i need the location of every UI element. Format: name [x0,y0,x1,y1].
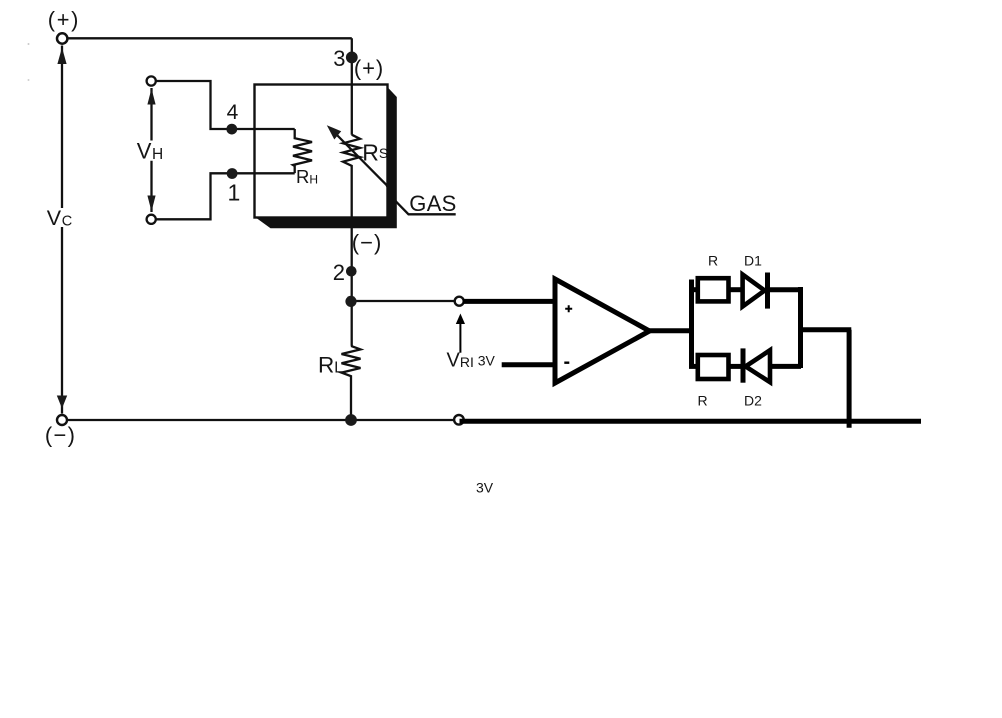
diode D2 cathode bar [741,348,746,382]
svg-text:R: R [708,253,718,269]
wire D1 to right bar [768,287,802,292]
wire R to D2 [729,364,742,369]
wire node2 to VRl terminal [351,300,455,302]
wire bottom rail thick [460,419,922,424]
svg-text:R: R [698,393,708,409]
node 2 dot [346,266,357,277]
resistor R top box [698,278,729,301]
node 4 dot [226,124,237,135]
VRl arrowhead [456,314,465,325]
gas arrow line through RS [332,130,456,214]
svg-text:(+): (+) [354,55,384,80]
svg-text:3: 3 [333,46,345,71]
svg-text:GAS: GAS [409,191,456,216]
svg-text:(−): (−) [352,230,383,255]
wire op-amp minus input thick [502,362,557,367]
gas arrowhead [327,125,341,139]
feedback right bar [798,287,803,368]
op-amp U1 triangle [555,279,650,383]
svg-text:(+): (+) [48,7,80,32]
VH measure line [150,88,152,212]
svg-text:(−): (−) [45,423,76,448]
resistor R bottom box [698,355,729,379]
diode D1 triangle [743,275,765,307]
terminal bottom mid [454,415,464,425]
VH arrowhead up [147,89,155,105]
wire R to D1 [729,287,745,292]
wire top rail [67,37,352,39]
wire D2 to right bar [770,364,801,369]
sensor box outline [255,85,388,218]
Vc arrowhead down [57,396,67,409]
svg-text:D1: D1 [744,253,762,269]
resistor RS zigzag [343,135,360,346]
op-amp plus sign [565,305,572,312]
VH arrowhead down [147,196,155,212]
resistor RH zigzag [293,129,312,173]
junction dot bottom rail [345,414,357,426]
diode D2 triangle [746,350,771,382]
sensor box shadow [256,87,397,229]
wire VH bottom terminal to node 1 [156,173,295,219]
svg-text:D2: D2 [744,393,762,409]
svg-text:2: 2 [333,260,345,285]
wire bottom rail thin [67,419,455,421]
wire output tap vertical [847,330,852,428]
svg-text:3V: 3V [476,480,494,496]
wire node3 vertical drop into sensor [351,38,353,134]
svg-text:4: 4 [227,101,239,124]
node 1 dot [227,168,238,179]
terminal VH top [147,76,156,85]
junction dot node2-RL [345,296,356,307]
terminal VH bottom [147,215,156,224]
wire op-amp output [650,328,692,333]
wire to resistor R bottom [689,364,700,369]
node 3 dot [346,52,358,64]
Vc measure line [61,46,63,414]
resistor RL zigzag [342,346,361,420]
VRl arrow line [459,323,461,353]
wire VH top terminal to node 4 [156,81,295,129]
terminal (-) bottom-left [57,415,67,425]
svg-text:1: 1 [228,180,241,206]
wire output tap horizontal [801,327,852,332]
wire op-amp plus input thick [463,299,557,304]
op-amp minus sign [564,362,569,364]
feedback left bar [689,280,694,369]
wire to resistor R top [689,287,700,292]
Vc arrowhead up [57,48,66,65]
diode D1 cathode bar [765,273,770,309]
terminal VRl top [455,297,464,306]
terminal (+) top-left [57,33,67,43]
